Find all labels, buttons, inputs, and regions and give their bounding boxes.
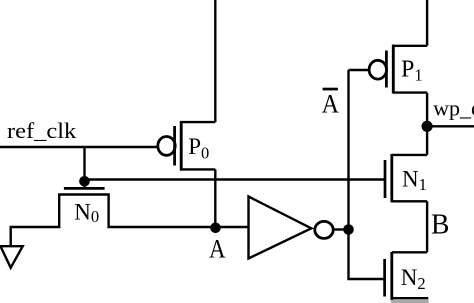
node A: [210, 223, 221, 234]
transistor N2: [385, 252, 429, 303]
wire Abar vertical from P1 gate to N2 gate: [349, 70, 385, 279]
op-amp U1 inverter: [249, 197, 334, 259]
node dot wp_en junction: [422, 121, 433, 132]
wire right VDD rail top: [426, 0, 428, 46]
wire long gate wire to N1: [85, 178, 386, 180]
transistor N1: [385, 154, 427, 202]
wire left VDD rail top: [214, 0, 216, 122]
transistor N0: [64, 187, 105, 190]
wire ref_clk: [0, 146, 157, 148]
transistor P1: [369, 45, 427, 94]
wire gate drop to N0: [83, 147, 85, 188]
svg-text:A: A: [322, 89, 339, 119]
wire wp_en tap: [427, 125, 474, 127]
svg-text:B: B: [431, 210, 449, 241]
svg-text:wp_en: wp_en: [433, 96, 474, 121]
wire node B segment N1 source to N2 drain: [426, 201, 428, 252]
node dot inverter output junction: [343, 224, 354, 235]
wire bottom run: ground corner, over N0 hat, to inverter input: [11, 195, 249, 247]
transistor P0: [158, 121, 216, 171]
wire inverter output: [333, 228, 349, 230]
svg-text:A: A: [209, 234, 226, 264]
ground: [1, 246, 23, 268]
wire P1 gate lead: [349, 69, 369, 71]
node dot N0 gate junction: [79, 176, 90, 187]
wire right rail P1 drain to N1 drain: [426, 93, 428, 155]
svg-text:ref_clk: ref_clk: [7, 118, 76, 143]
wire left rail P0 drain to node A: [214, 169, 216, 227]
